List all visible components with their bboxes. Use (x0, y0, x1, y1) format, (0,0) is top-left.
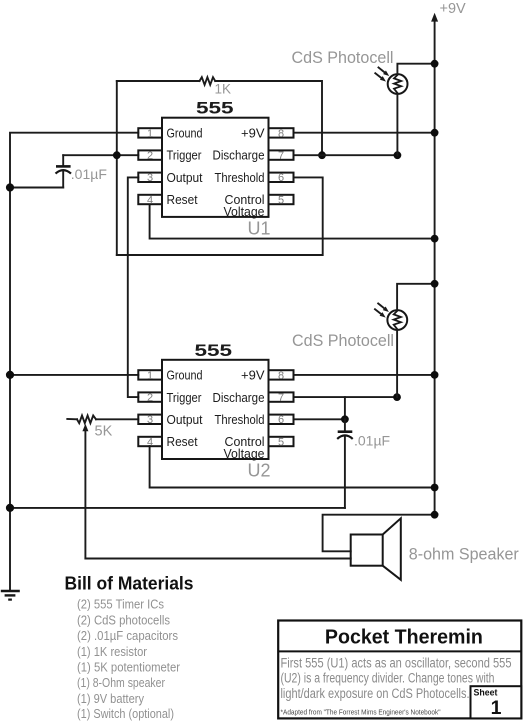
junction dot rail / speaker wire (431, 511, 439, 519)
junction dot ground rail / C2 (6, 504, 14, 512)
wire: trigger net U1 (C1 top to pin 2) (63, 154, 138, 156)
svg-text:4: 4 (147, 436, 153, 448)
svg-text:555: 555 (196, 100, 234, 118)
U2 pin 5 box (269, 437, 294, 446)
svg-text:(1) 5K potentiometer: (1) 5K potentiometer (77, 660, 181, 675)
wire: U2 pin 1 ground to ground rail (10, 374, 138, 376)
svg-text:Voltage: Voltage (224, 446, 265, 461)
svg-text:Threshold: Threshold (215, 170, 265, 185)
svg-text:Output: Output (167, 170, 203, 185)
U1 pin 1 box (138, 128, 162, 137)
U2 pin 4 box (138, 437, 162, 446)
U2 pin 7 box (269, 392, 294, 401)
svg-text:Voltage: Voltage (224, 204, 265, 219)
U1 label Control Voltage (224, 192, 265, 219)
svg-text:(1) Switch (optional): (1) Switch (optional) (77, 706, 174, 721)
svg-text:Bill of Materials: Bill of Materials (65, 572, 194, 593)
svg-text:U1: U1 (248, 219, 271, 239)
svg-text:Discharge: Discharge (213, 148, 265, 163)
junction dot threshold U2 / C2 (341, 415, 349, 423)
svg-text:Ground: Ground (167, 126, 203, 141)
sheet box (471, 686, 522, 718)
wire: U1 pin 7 discharge (294, 154, 398, 156)
wire: U2 pin 8 to +9V rail (294, 374, 435, 376)
svg-text:Output: Output (167, 412, 203, 427)
junction dot trigger net (113, 151, 121, 159)
wire: U2 pin 3 output to potentiometer R2 (96, 418, 138, 420)
svg-text:+9V: +9V (440, 1, 467, 17)
+9V rail wire (434, 19, 436, 515)
svg-text:(1) 9V battery: (1) 9V battery (77, 691, 144, 706)
R2 wiper arrow (82, 424, 88, 559)
svg-text:8-ohm Speaker: 8-ohm Speaker (409, 544, 519, 563)
U2 pin 1 box (138, 370, 162, 379)
svg-text:2: 2 (147, 150, 153, 162)
svg-text:Reset: Reset (167, 192, 198, 207)
svg-text:+9V: +9V (241, 368, 265, 383)
svg-text:U2: U2 (248, 461, 271, 481)
junction dot rail / pin 8 U2 (431, 371, 439, 379)
U1 pin 5 box (269, 195, 294, 204)
wire: PC2 bottom to U2 discharge (396, 330, 398, 398)
wire: 1K right segment down to discharge (215, 81, 322, 155)
potentiometer R2 5K (67, 416, 96, 424)
svg-text:(2) 555 Timer ICs: (2) 555 Timer ICs (77, 597, 164, 612)
ground symbol (1, 591, 20, 600)
arrow 2 into PC2 (375, 309, 386, 317)
arrow 2 into PC1 (375, 73, 386, 81)
svg-text:5: 5 (278, 194, 284, 206)
junction dot ground rail / C1 (6, 183, 14, 191)
svg-text:Trigger: Trigger (167, 148, 203, 163)
svg-text:(U2) is a frequency divider. C: (U2) is a frequency divider. Change tone… (281, 671, 495, 686)
svg-text:.01µF: .01µF (354, 433, 390, 449)
svg-text:light/dark exposure on CdS Pho: light/dark exposure on CdS Photocells. (281, 686, 470, 701)
wire: C1 bottom to ground rail (10, 187, 63, 189)
U1 pin 2 box (138, 150, 162, 159)
wire: R2 wiper to speaker lower terminal (85, 558, 350, 560)
svg-text:Threshold: Threshold (215, 412, 265, 427)
svg-text:4: 4 (147, 194, 153, 206)
wire: U2 pin 6 threshold (294, 418, 345, 420)
svg-text:Pocket Theremin: Pocket Theremin (325, 626, 483, 649)
svg-text:Discharge: Discharge (213, 390, 265, 405)
svg-text:1: 1 (491, 697, 502, 719)
U1 pin 6 box (269, 173, 294, 182)
junction dot discharge / 1K (318, 151, 326, 159)
wire: PC2 top to +9V rail (397, 284, 435, 311)
wire: C2 riser to discharge wire (344, 397, 346, 419)
junction dot discharge U2 / photocell PC2 (393, 393, 401, 401)
svg-text:(2) .01µF capacitors: (2) .01µF capacitors (77, 628, 178, 643)
svg-text:*Adapted from "The Forrest Mim: *Adapted from "The Forrest Mims Engineer… (281, 708, 441, 717)
photocell PC1 (388, 74, 408, 94)
wire: threshold loop bottom U1 (117, 177, 323, 255)
+9V rail arrowhead (431, 13, 438, 22)
U2 pin 2 box (138, 392, 162, 401)
svg-text:(2) CdS photocells: (2) CdS photocells (77, 612, 170, 627)
U2 pin 8 box (269, 370, 294, 379)
wire: U1 pin 4 reset to +9V rail (150, 204, 435, 238)
svg-text:3: 3 (147, 172, 153, 184)
svg-text:First 555 (U1) acts as an osci: First 555 (U1) acts as an oscillator, se… (281, 655, 512, 670)
wire: vertical 1K-left / trigger junction (116, 81, 118, 255)
title block divider (278, 650, 521, 652)
arrow 1 into PC1 (379, 68, 390, 77)
svg-text:5: 5 (278, 436, 284, 448)
U1 pin 8 box (269, 128, 294, 137)
svg-text:7: 7 (278, 392, 284, 404)
U2 pin 3 box (138, 415, 162, 424)
wire: U2 pin 4 reset to +9V rail (150, 446, 435, 487)
svg-text:6: 6 (278, 172, 284, 184)
speaker SPK 8-ohm (351, 518, 401, 580)
svg-text:CdS Photocell: CdS Photocell (292, 331, 394, 350)
svg-text:5K: 5K (95, 424, 113, 440)
svg-text:7: 7 (278, 150, 284, 162)
svg-text:.01µF: .01µF (71, 166, 107, 182)
svg-text:3: 3 (147, 414, 153, 426)
junction dot rail / reset U1 (431, 235, 439, 243)
svg-text:+9V: +9V (241, 126, 265, 141)
resistor R1 1K (200, 77, 216, 85)
svg-text:Trigger: Trigger (167, 390, 203, 405)
U2 label Control Voltage (224, 434, 265, 461)
junction dot discharge / photocell PC1 (394, 151, 402, 159)
IC U2 body (162, 360, 269, 459)
wire: +9V rail to speaker upper terminal (323, 515, 435, 552)
junction dot ground rail / U2 pin 1 (6, 371, 14, 379)
svg-text:2: 2 (147, 392, 153, 404)
title block frame (278, 621, 521, 719)
wire: PC1 bottom to discharge (396, 94, 398, 156)
svg-text:6: 6 (278, 414, 284, 426)
wire: PC1 top to +9V rail (397, 64, 434, 75)
ground rail wire (left) with U1 pin 1 ground wire (10, 133, 138, 591)
junction dot rail / pin 8 U1 (431, 129, 439, 137)
svg-text:Ground: Ground (167, 368, 203, 383)
svg-text:CdS Photocell: CdS Photocell (292, 48, 394, 67)
U2 pin 6 box (269, 415, 294, 424)
photocell PC2 (387, 310, 407, 330)
arrow 1 into PC2 (378, 304, 389, 313)
wire: U1 output pin 3 to U2 trigger pin 2 (128, 177, 139, 397)
IC U1 body (162, 118, 269, 217)
svg-text:1K: 1K (215, 82, 232, 97)
capacitor C2 .01uF (337, 419, 353, 508)
svg-text:8: 8 (278, 128, 284, 140)
U1 pin 7 box (269, 150, 294, 159)
junction dot rail / PC2 (431, 280, 439, 288)
junction dot rail / reset U2 (431, 484, 439, 492)
svg-text:1: 1 (147, 128, 153, 140)
wire: U1 pin 8 to +9V rail (294, 132, 435, 134)
U1 pin 3 box (138, 173, 162, 182)
svg-text:Reset: Reset (167, 434, 198, 449)
wire: 1K top left segment (117, 80, 200, 82)
svg-text:8: 8 (278, 370, 284, 382)
svg-text:(1) 8-Ohm speaker: (1) 8-Ohm speaker (77, 675, 166, 690)
svg-text:(1) 1K resistor: (1) 1K resistor (77, 644, 148, 659)
capacitor C1 .01uF (56, 155, 72, 187)
svg-text:555: 555 (195, 342, 233, 360)
U1 pin 4 box (138, 195, 162, 204)
wire: U2 pin 7 discharge (294, 396, 398, 398)
svg-text:1: 1 (147, 370, 153, 382)
junction dot rail / PC1 (431, 60, 439, 68)
wire: C2 bottom to ground rail (10, 507, 345, 509)
